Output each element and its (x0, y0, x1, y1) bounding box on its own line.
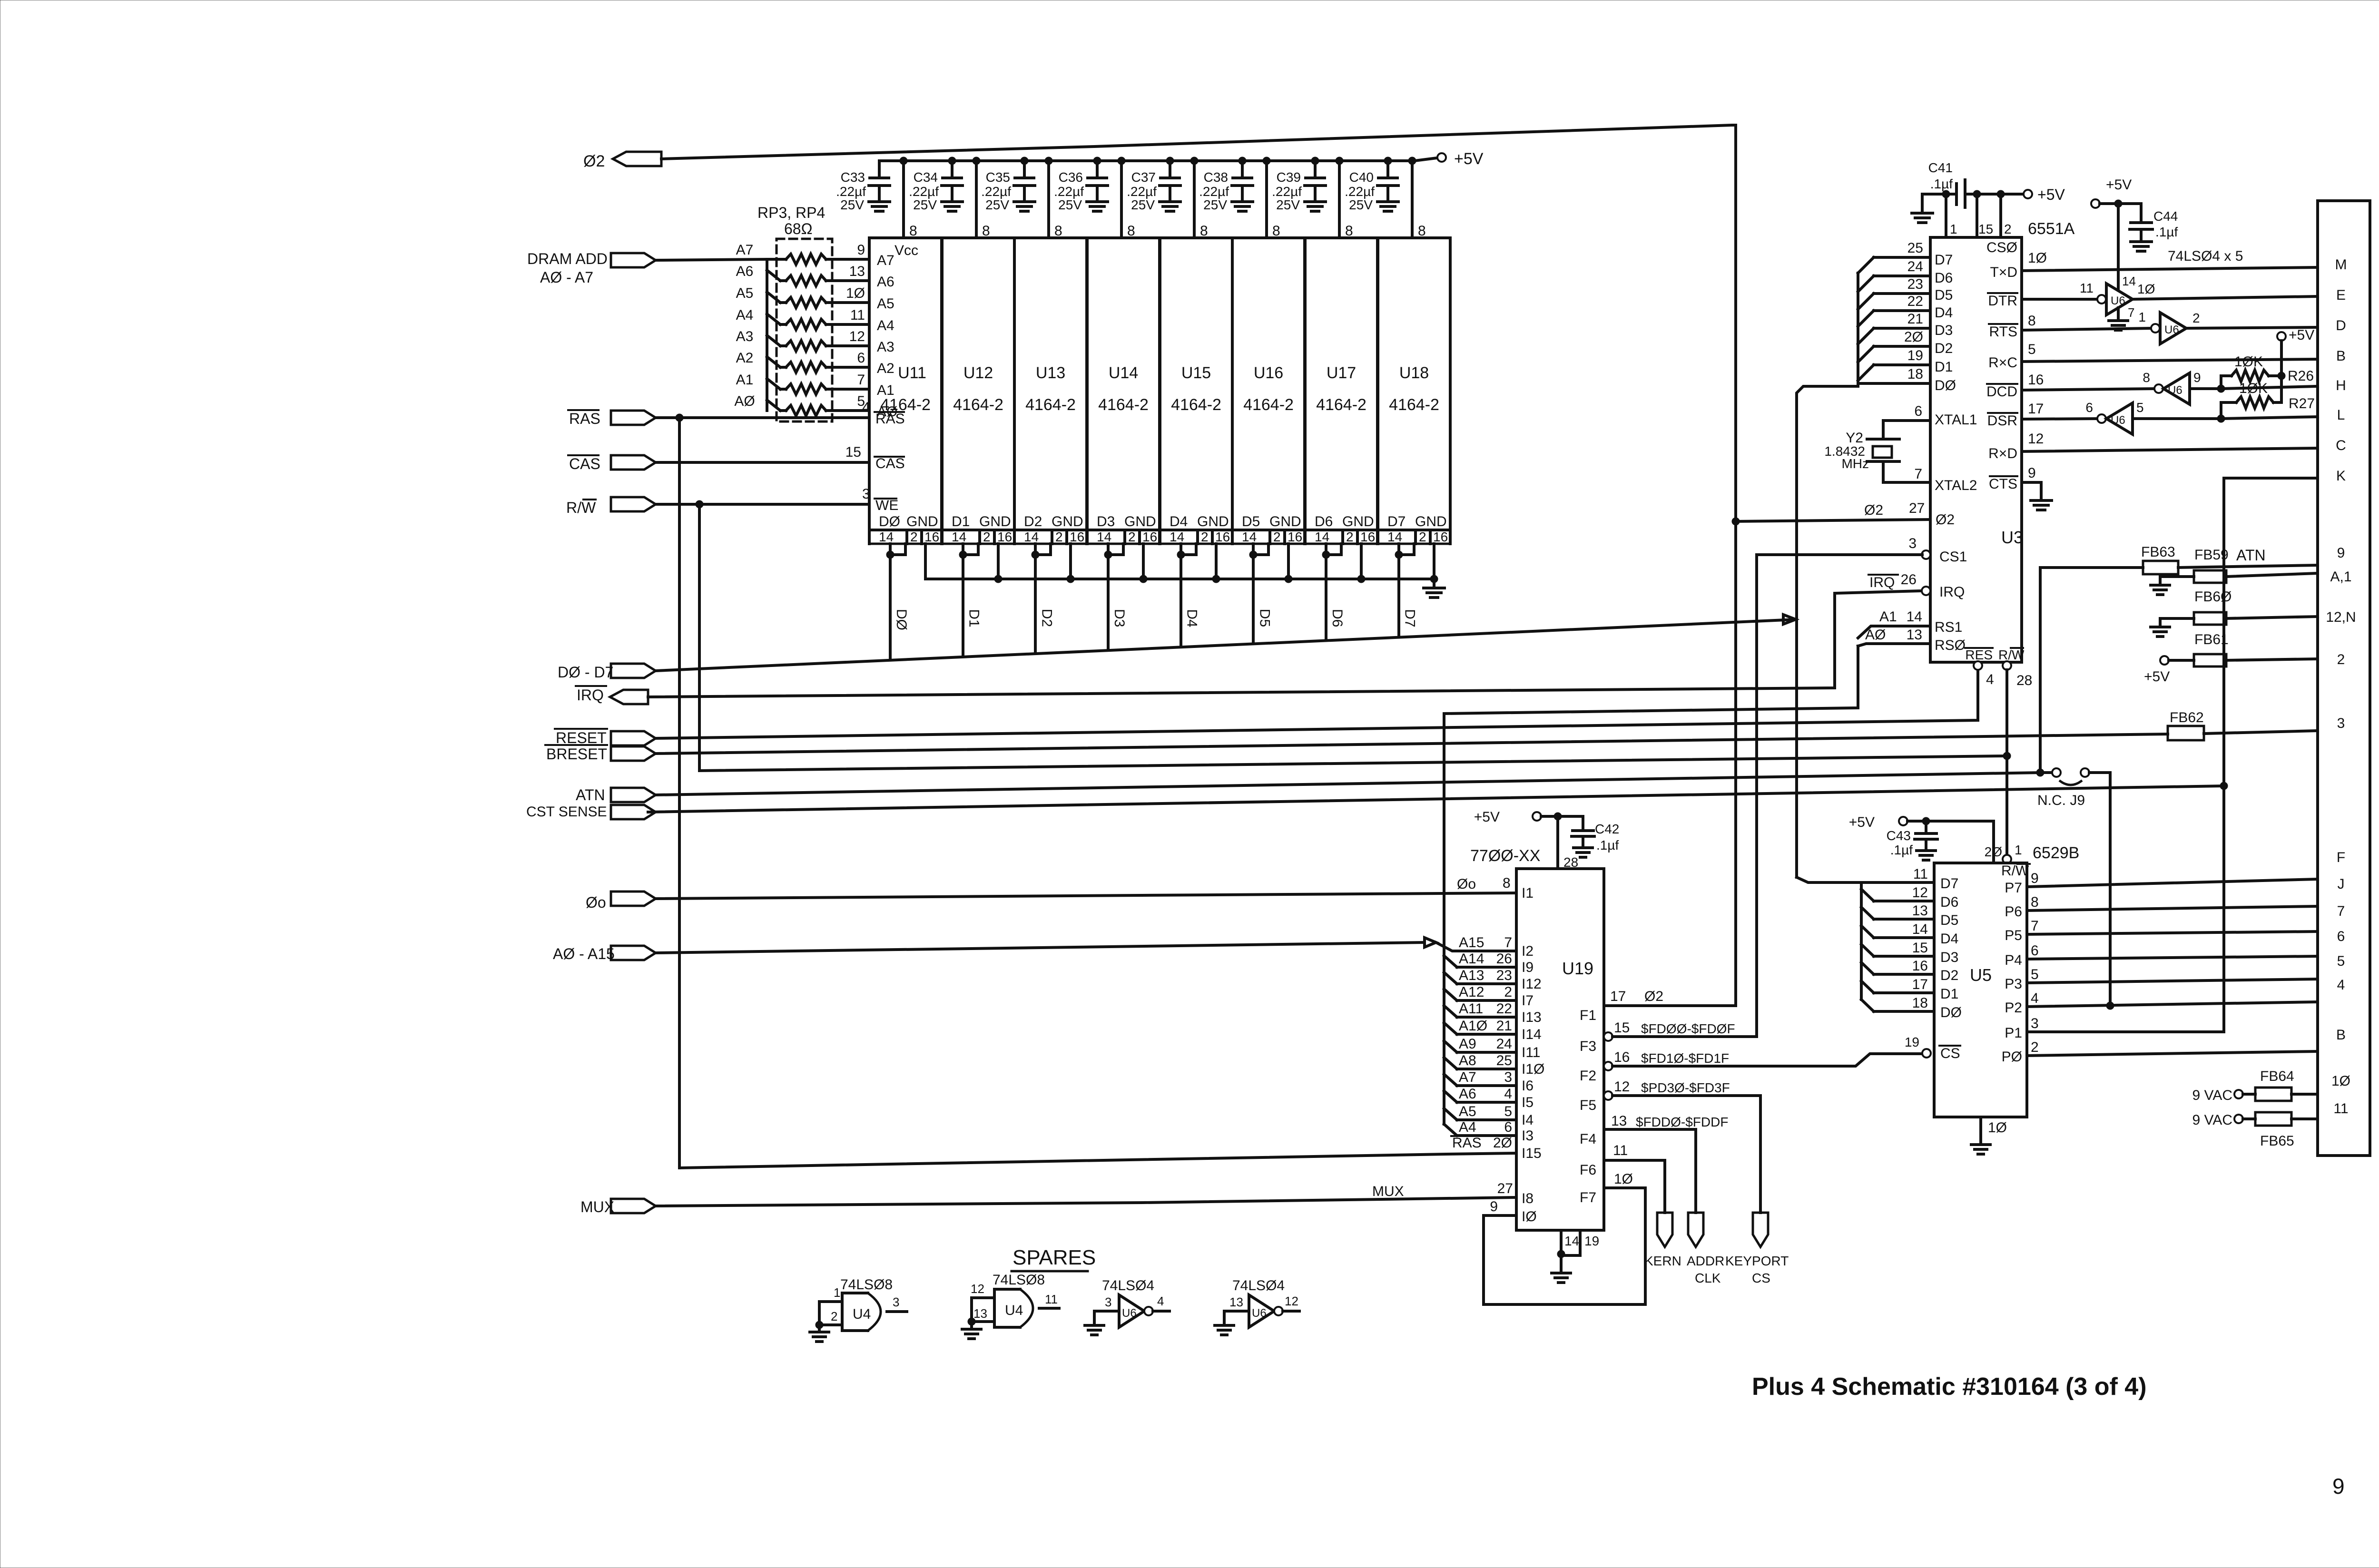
svg-text:I13: I13 (1522, 1009, 1542, 1025)
svg-text:D7: D7 (1402, 609, 1418, 627)
svg-text:F2: F2 (1580, 1068, 1596, 1084)
svg-text:N.C. J9: N.C. J9 (2037, 793, 2085, 808)
svg-text:D7: D7 (1935, 252, 1953, 268)
wire RAS to U11 and down to U19 I15 (656, 400, 905, 1168)
svg-text:U4: U4 (853, 1306, 871, 1322)
svg-text:I8: I8 (1522, 1191, 1534, 1206)
DRAM U13 4164-2 (1014, 238, 1087, 544)
svg-text:18: 18 (1907, 366, 1923, 382)
node edge pin 11 (2333, 1101, 2348, 1117)
svg-text:.22µf: .22µf (909, 184, 939, 199)
wire address A1&#216; to U19 pin 21 (1444, 1018, 1542, 1042)
svg-text:R/W: R/W (1998, 647, 2025, 662)
svg-text:Ø2: Ø2 (1864, 502, 1883, 518)
svg-text:A4: A4 (877, 318, 895, 333)
svg-text:C33: C33 (841, 170, 865, 185)
node edge pin B (2336, 348, 2346, 364)
svg-text:16: 16 (2028, 372, 2044, 388)
svg-text:18: 18 (1912, 995, 1928, 1011)
svg-text:IRQ: IRQ (577, 686, 604, 704)
svg-text:14: 14 (1387, 529, 1402, 544)
svg-text:8: 8 (2028, 313, 2036, 329)
capacitor C37 .22uf 25V (1127, 157, 1180, 212)
svg-text:D3: D3 (1097, 514, 1115, 529)
svg-text:D1: D1 (1940, 986, 1958, 1002)
svg-text:12: 12 (1285, 1294, 1298, 1308)
svg-text:74LSØ8: 74LSØ8 (840, 1277, 893, 1293)
svg-text:1: 1 (1950, 222, 1957, 236)
node edge pin 12,N (2326, 609, 2356, 625)
wire D0-D7 bus line (656, 386, 1858, 877)
ground spare gate 1 (810, 1325, 829, 1342)
svg-text:D1: D1 (1935, 359, 1953, 375)
wire DRAM GND bus (925, 575, 1438, 583)
svg-text:I1: I1 (1522, 885, 1534, 901)
wire data pin 14/2 chip U16 to D5 line (1249, 544, 1268, 644)
svg-text:A1Ø: A1Ø (1459, 1018, 1487, 1034)
text 6551A label (2028, 220, 2075, 238)
svg-text:2: 2 (1346, 529, 1354, 544)
node D4 vertical label (1184, 609, 1200, 627)
svg-text:D2: D2 (1940, 968, 1958, 983)
svg-text:Øo: Øo (586, 894, 606, 911)
wire CAS to U11 (656, 444, 905, 471)
svg-text:9 VAC: 9 VAC (2192, 1112, 2232, 1128)
wire GND pin 16 chip U12 (997, 544, 1000, 579)
node CAS input (568, 455, 656, 472)
node D3 vertical label (1111, 609, 1127, 627)
wire GND pin 16 chip U11 (924, 544, 927, 579)
svg-text:U12: U12 (963, 364, 993, 382)
wire RxC to edge B (2022, 342, 2318, 362)
svg-text:25: 25 (1496, 1053, 1512, 1068)
svg-text:C35: C35 (986, 170, 1010, 185)
node BRESET input (545, 745, 656, 763)
wire phi0 to U19 I1 (656, 875, 1534, 901)
svg-text:GND: GND (979, 514, 1011, 529)
svg-text:CST SENSE: CST SENSE (526, 804, 607, 820)
svg-text:XTAL2: XTAL2 (1935, 478, 1977, 493)
node CST SENSE input (526, 804, 656, 820)
svg-text:DCD: DCD (1986, 384, 2017, 400)
IC U3 6551A ACIA (1930, 237, 2025, 662)
svg-text:CAS: CAS (569, 455, 600, 472)
svg-text:U18: U18 (1399, 364, 1429, 382)
svg-text:ATN: ATN (576, 786, 605, 804)
resistor RP element A4 (736, 307, 895, 333)
wire RAS to U19 I15 pin 20 (679, 1135, 1542, 1168)
svg-text:C36: C36 (1059, 170, 1083, 185)
ground C41 (1912, 194, 1933, 223)
wire data pin 14/2 chip U11 to D0 line (886, 544, 905, 660)
svg-text:4164-2: 4164-2 (1171, 396, 1221, 414)
svg-text:SPARES: SPARES (1013, 1246, 1096, 1269)
svg-text:I11: I11 (1522, 1045, 1540, 1060)
node D2 vertical label (1039, 609, 1054, 627)
svg-text:U6: U6 (1252, 1307, 1267, 1320)
svg-text:A11: A11 (1459, 1001, 1483, 1017)
resistor RP element A5 (736, 285, 895, 312)
svg-text:U19: U19 (1562, 959, 1593, 978)
svg-text:P7: P7 (2005, 880, 2022, 896)
svg-text:U15: U15 (1181, 364, 1211, 382)
svg-text:14: 14 (1912, 921, 1928, 937)
svg-text:A5: A5 (1459, 1104, 1476, 1119)
inverter U6 74LS04 spare pins 3 4 (1094, 1278, 1170, 1327)
svg-text:23: 23 (1496, 968, 1512, 983)
wire DRAM address bus fanout (656, 259, 786, 411)
wire address A6 to U19 pin 4 (1444, 1086, 1534, 1110)
svg-text:25V: 25V (1276, 197, 1300, 212)
wire data pin 14/2 chip U12 to D1 line (959, 544, 978, 657)
svg-text:.1µf: .1µf (1596, 838, 1619, 853)
node edge pin A,1 (2330, 569, 2351, 585)
svg-text:12: 12 (2028, 431, 2044, 447)
svg-text:17: 17 (1610, 989, 1626, 1004)
svg-text:RAS: RAS (569, 410, 600, 427)
ground DRAM GND bus (1424, 579, 1445, 598)
svg-text:D5: D5 (1242, 514, 1260, 529)
node A0-A15 input (553, 945, 656, 962)
svg-text:2: 2 (2192, 311, 2200, 325)
svg-text:D4: D4 (1940, 931, 1958, 947)
svg-text:$FDDØ-$FDDF: $FDDØ-$FDDF (1636, 1115, 1728, 1129)
svg-text:16: 16 (924, 529, 939, 544)
svg-text:GND: GND (1052, 514, 1083, 529)
svg-text:8: 8 (2143, 370, 2150, 385)
svg-text:D4: D4 (1184, 609, 1200, 627)
svg-text:FB63: FB63 (2141, 544, 2175, 560)
svg-text:11: 11 (1613, 1143, 1628, 1158)
svg-text:5: 5 (1504, 1104, 1512, 1119)
svg-text:$PD3Ø-$FD3F: $PD3Ø-$FD3F (1641, 1080, 1730, 1095)
svg-text:77ØØ-XX: 77ØØ-XX (1470, 847, 1540, 865)
svg-text:A9: A9 (1459, 1036, 1476, 1052)
svg-text:U6: U6 (2168, 384, 2182, 397)
wire F1 output phi2 (1580, 989, 1736, 1023)
svg-text:25V: 25V (1131, 197, 1155, 212)
svg-text:16: 16 (997, 529, 1012, 544)
svg-text:74LSØ4 x 5: 74LSØ4 x 5 (2168, 248, 2243, 264)
node phi0 input (586, 892, 656, 911)
svg-text:16: 16 (1360, 529, 1375, 544)
svg-text:D5: D5 (1935, 287, 1953, 303)
svg-text:D7: D7 (1387, 514, 1406, 529)
svg-text:DSR: DSR (1987, 413, 2017, 429)
wire F5 output $FD30-$FD3F keyport (1580, 1079, 1760, 1213)
DRAM U18 4164-2 (1378, 238, 1450, 544)
svg-text:25: 25 (1907, 240, 1923, 256)
svg-text:R/W: R/W (2001, 863, 2029, 879)
svg-text:KERN: KERN (1644, 1254, 1681, 1268)
resistor pack RP3 RP4 68 ohm dashed outline (757, 204, 832, 421)
svg-text:D: D (2336, 318, 2346, 333)
svg-text:D2: D2 (1024, 514, 1042, 529)
svg-text:14: 14 (2122, 274, 2136, 288)
svg-text:16: 16 (1614, 1049, 1630, 1065)
svg-text:F5: F5 (1580, 1098, 1596, 1113)
text page number 9 (2332, 1474, 2345, 1499)
wire U19 ground pins 14 19 (1557, 1230, 1599, 1258)
svg-text:F7: F7 (1580, 1190, 1596, 1205)
svg-text:FB65: FB65 (2260, 1133, 2294, 1149)
svg-text:16: 16 (1912, 958, 1928, 974)
svg-text:14: 14 (1564, 1234, 1579, 1248)
svg-text:.22µf: .22µf (1199, 184, 1229, 199)
svg-text:5: 5 (2337, 953, 2345, 969)
svg-text:1Ø: 1Ø (2331, 1073, 2350, 1089)
svg-text:RSØ: RSØ (1935, 637, 1966, 653)
svg-text:.22µf: .22µf (981, 184, 1011, 199)
svg-text:I1Ø: I1Ø (1522, 1061, 1544, 1077)
svg-text:MUX: MUX (580, 1198, 614, 1215)
wire U3 power pins 1 15 2 (1942, 190, 2012, 237)
svg-text:6: 6 (1504, 1119, 1512, 1135)
svg-text:GND: GND (1415, 514, 1447, 529)
svg-text:A6: A6 (736, 264, 754, 279)
svg-text:U5: U5 (1970, 965, 1992, 985)
svg-text:CS: CS (1752, 1271, 1770, 1285)
wire U5 P4 to edge 6 (2027, 943, 2318, 959)
wire CST SENSE to edge K and U5 P1 (648, 478, 2318, 1032)
wire Vcc pin 8 riser U11 (900, 157, 917, 239)
svg-text:C38: C38 (1204, 170, 1228, 185)
svg-text:1Ø: 1Ø (846, 285, 865, 301)
wire U5 P2 to edge 4 (2027, 990, 2318, 1009)
svg-text:C34: C34 (914, 170, 938, 185)
svg-text:25V: 25V (985, 197, 1009, 212)
svg-text:4: 4 (1504, 1086, 1512, 1102)
svg-text:3: 3 (893, 1295, 899, 1309)
power +5V at C43 (1849, 814, 1994, 863)
resistor RP element A7 (736, 242, 895, 268)
svg-text:2: 2 (1504, 984, 1512, 1000)
svg-text:8: 8 (2031, 894, 2039, 910)
wire ATN to FB63 and jumper J9 (656, 568, 2044, 795)
svg-text:+5V: +5V (2037, 186, 2065, 203)
svg-text:Ø2: Ø2 (1936, 512, 1955, 528)
svg-text:DØ: DØ (879, 514, 900, 529)
svg-text:1Ø: 1Ø (2028, 250, 2047, 266)
wire data pin 14/2 chip U18 to D7 line (1395, 544, 1414, 637)
svg-text:11: 11 (850, 307, 865, 323)
svg-text:25V: 25V (1058, 197, 1082, 212)
svg-text:14: 14 (1315, 529, 1329, 544)
svg-text:6: 6 (1914, 403, 1922, 419)
svg-text:D1: D1 (952, 514, 970, 529)
svg-text:$FDØØ-$FDØF: $FDØØ-$FDØF (1641, 1021, 1735, 1036)
capacitor C36 .22uf 25V (1054, 157, 1108, 212)
node D6 vertical label (1329, 609, 1345, 627)
wire data pin 14/2 chip U13 to D2 line (1032, 544, 1051, 654)
svg-text:2: 2 (1273, 529, 1281, 544)
svg-text:19: 19 (1584, 1234, 1599, 1248)
svg-text:4164-2: 4164-2 (1316, 396, 1366, 414)
svg-text:1: 1 (834, 1285, 840, 1300)
svg-text:16: 16 (1215, 529, 1230, 544)
DRAM U17 4164-2 (1305, 238, 1377, 544)
svg-text:.22µf: .22µf (836, 184, 866, 199)
svg-text:1Ø: 1Ø (1614, 1171, 1633, 1187)
svg-text:I3: I3 (1522, 1128, 1534, 1144)
wire RESET to U3 RES pin 4 (656, 661, 1994, 738)
ground inverter U6 pin 7 (2109, 308, 2128, 330)
svg-text:D6: D6 (1329, 609, 1345, 627)
capacitor C38 .22uf 25V (1199, 157, 1253, 212)
svg-text:A2: A2 (736, 350, 754, 366)
svg-text:A7: A7 (1459, 1069, 1476, 1085)
svg-text:I2: I2 (1522, 943, 1534, 959)
svg-text:13: 13 (849, 264, 865, 279)
svg-text:J: J (2338, 876, 2345, 892)
svg-text:3: 3 (2337, 715, 2345, 731)
node D0-D7 bus arrow (558, 664, 656, 681)
svg-text:U14: U14 (1109, 364, 1138, 382)
node D5 vertical label (1257, 609, 1272, 627)
svg-text:RS1: RS1 (1935, 619, 1962, 635)
IC U19 PLA 7700-XX (1516, 869, 1604, 1230)
svg-text:.22µf: .22µf (1345, 184, 1375, 199)
wire data pin 14/2 chip U14 to D3 line (1104, 544, 1123, 650)
svg-text:A4: A4 (1459, 1119, 1476, 1135)
svg-text:2: 2 (983, 529, 991, 544)
svg-text:A1: A1 (736, 372, 754, 388)
flag ADDR CLK output (1687, 1213, 1724, 1285)
svg-text:14: 14 (1907, 609, 1922, 625)
svg-text:25V: 25V (1349, 197, 1373, 212)
node edge pin E (2336, 287, 2346, 303)
svg-text:A1: A1 (877, 382, 895, 398)
wire U5 P0 to edge B (2027, 1039, 2318, 1056)
text SPARES title (1012, 1246, 1096, 1271)
svg-text:CSØ: CSØ (1986, 240, 2017, 255)
svg-text:5: 5 (2136, 400, 2144, 415)
svg-text:.1µf: .1µf (1890, 843, 1913, 857)
wire R/W to U3 pin 28 and U5 pin 1 (1985, 661, 2033, 863)
svg-text:D3: D3 (1940, 950, 1958, 965)
svg-text:11: 11 (1913, 866, 1928, 882)
svg-text:13: 13 (1611, 1113, 1627, 1129)
svg-text:4164-2: 4164-2 (1389, 396, 1439, 414)
power +5V at U19 pin 28 and C42 (1474, 809, 1583, 870)
gate U4 74LS08 spare pins 12 13 11 (968, 1272, 1059, 1327)
svg-text:RAS: RAS (875, 411, 905, 427)
svg-text:6529B: 6529B (2033, 844, 2079, 862)
ground CTS pin 9 (2022, 465, 2052, 510)
svg-text:F4: F4 (1580, 1131, 1596, 1147)
svg-text:C41: C41 (1928, 160, 1953, 175)
node PHI2 input arrow (583, 152, 661, 170)
svg-text:XTAL1: XTAL1 (1935, 412, 1977, 428)
svg-text:MHz: MHz (1841, 456, 1869, 471)
svg-text:ATN: ATN (2236, 547, 2266, 564)
svg-text:6: 6 (2085, 400, 2093, 415)
svg-text:A3: A3 (877, 339, 895, 355)
svg-text:A13: A13 (1459, 968, 1484, 983)
capacitor C44 .1uf (2100, 200, 2178, 251)
svg-text:27: 27 (1497, 1181, 1513, 1196)
power +5V at R26 (2277, 327, 2314, 402)
wire address A14 to U19 pin 26 (1444, 951, 1534, 975)
svg-text:U4: U4 (1005, 1303, 1023, 1318)
svg-text:7: 7 (2128, 305, 2134, 320)
svg-text:I7: I7 (1522, 993, 1534, 1009)
svg-text:U16: U16 (1254, 364, 1283, 382)
svg-text:DTR: DTR (1988, 293, 2017, 309)
inverter U6 74LS04 spare pins 13 12 (1224, 1278, 1299, 1327)
svg-text:4164-2: 4164-2 (1243, 396, 1294, 414)
wire F7 feedback loop to I0 pin 9 (1484, 1188, 1645, 1304)
svg-text:17: 17 (2028, 401, 2044, 417)
svg-text:D3: D3 (1935, 323, 1953, 338)
svg-text:AØ: AØ (1865, 627, 1886, 643)
svg-text:6: 6 (857, 350, 865, 366)
svg-text:R26: R26 (2288, 368, 2314, 384)
svg-text:C44: C44 (2153, 209, 2178, 224)
node RESET input (555, 729, 656, 746)
svg-text:14: 14 (879, 529, 894, 544)
node edge pin L (2337, 407, 2345, 423)
wire IRQ from arrow to U3 pin 26 (576, 572, 1930, 704)
svg-text:26: 26 (1496, 951, 1512, 967)
svg-text:16: 16 (1142, 529, 1157, 544)
svg-text:1: 1 (2015, 843, 2022, 857)
ferrite bead FB63 (2040, 544, 2318, 574)
svg-text:6: 6 (2337, 929, 2345, 944)
wire F2 output $FD10-$FD1F to U5 CS (1580, 1035, 1931, 1084)
DRAM U15 4164-2 (1160, 238, 1232, 544)
svg-text:GND: GND (1342, 514, 1374, 529)
svg-text:.1µf: .1µf (2155, 225, 2178, 239)
svg-text:14: 14 (952, 529, 966, 544)
svg-text:15: 15 (1912, 940, 1928, 956)
svg-text:D4: D4 (1170, 514, 1188, 529)
svg-text:I5: I5 (1522, 1095, 1534, 1110)
wire CS1 from U19 F3 (1757, 536, 1930, 1037)
svg-text:+5V: +5V (2289, 327, 2314, 343)
wire Vcc pin 8 riser U16 (1263, 157, 1280, 239)
svg-text:12: 12 (1614, 1079, 1630, 1095)
wire U5 P1 up to K net (2027, 1016, 2224, 1032)
svg-text:4: 4 (862, 400, 870, 415)
node edge pin 5 (2337, 953, 2345, 969)
inverter U6 RTS pins 1-2 (2022, 310, 2318, 344)
svg-text:3: 3 (1105, 1295, 1111, 1309)
svg-text:I15: I15 (1522, 1146, 1542, 1161)
flag KEYPORT CS output (1725, 1213, 1789, 1285)
resistor R27 10K (2221, 381, 2315, 419)
svg-text:FB64: FB64 (2260, 1068, 2294, 1084)
svg-text:C43: C43 (1887, 828, 1911, 843)
node edge pin H (2336, 378, 2346, 393)
svg-text:A7: A7 (877, 253, 895, 268)
svg-text:GND: GND (1124, 514, 1156, 529)
wire address A7 to U19 pin 3 (1444, 1069, 1534, 1094)
wire address A9 to U19 pin 24 (1444, 1036, 1540, 1060)
wire address A4 to U19 pin 6 (1444, 1119, 1534, 1144)
svg-text:7: 7 (1504, 935, 1512, 951)
flag KERN output (1644, 1213, 1681, 1268)
wire GND pin 16 chip U14 (1142, 544, 1145, 579)
svg-text:15: 15 (845, 444, 861, 460)
svg-text:P6: P6 (2005, 904, 2022, 920)
svg-text:E: E (2336, 287, 2346, 303)
svg-text:D2: D2 (1039, 609, 1054, 627)
svg-text:28: 28 (1563, 855, 1578, 870)
svg-text:4: 4 (2337, 977, 2345, 993)
node edge pin 2 (2337, 652, 2345, 667)
svg-text:Plus 4 Schematic #310164 (3 of: Plus 4 Schematic #310164 (3 of 4) (1752, 1373, 2147, 1401)
